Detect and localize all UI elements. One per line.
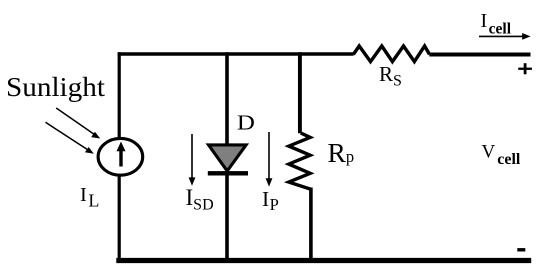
wire diode branch vertical top xyxy=(225,52,229,146)
current source IL circle xyxy=(98,138,143,175)
arrow Icell (right) xyxy=(479,33,531,40)
terminal minus sign xyxy=(517,248,525,251)
wire diode branch vertical bottom xyxy=(225,174,229,260)
arrow ISD (down) xyxy=(189,134,196,186)
sunlight ray arrow 1 xyxy=(56,108,100,139)
wire left branch vertical bottom xyxy=(118,175,121,262)
wire Rp branch top lead xyxy=(298,52,302,133)
resistor Rp zigzag xyxy=(289,133,311,189)
resistor RS zigzag xyxy=(353,46,429,62)
diode D cathode bar xyxy=(208,171,248,175)
sunlight ray arrow 2 xyxy=(46,122,94,154)
svg-text:D: D xyxy=(237,111,255,135)
current source arrow (up) xyxy=(117,142,126,167)
diode D triangle xyxy=(209,145,247,171)
svg-text:Sunlight: Sunlight xyxy=(6,72,106,102)
arrow IP (down) xyxy=(266,132,273,187)
wire top rail right (RS to + terminal) xyxy=(429,53,530,57)
wire bottom rail xyxy=(116,258,531,263)
wire left branch vertical top xyxy=(118,52,121,139)
wire top rail left (node A to RS) xyxy=(118,52,354,55)
terminal plus sign xyxy=(518,63,532,74)
wire Rp branch bottom lead xyxy=(309,188,313,261)
